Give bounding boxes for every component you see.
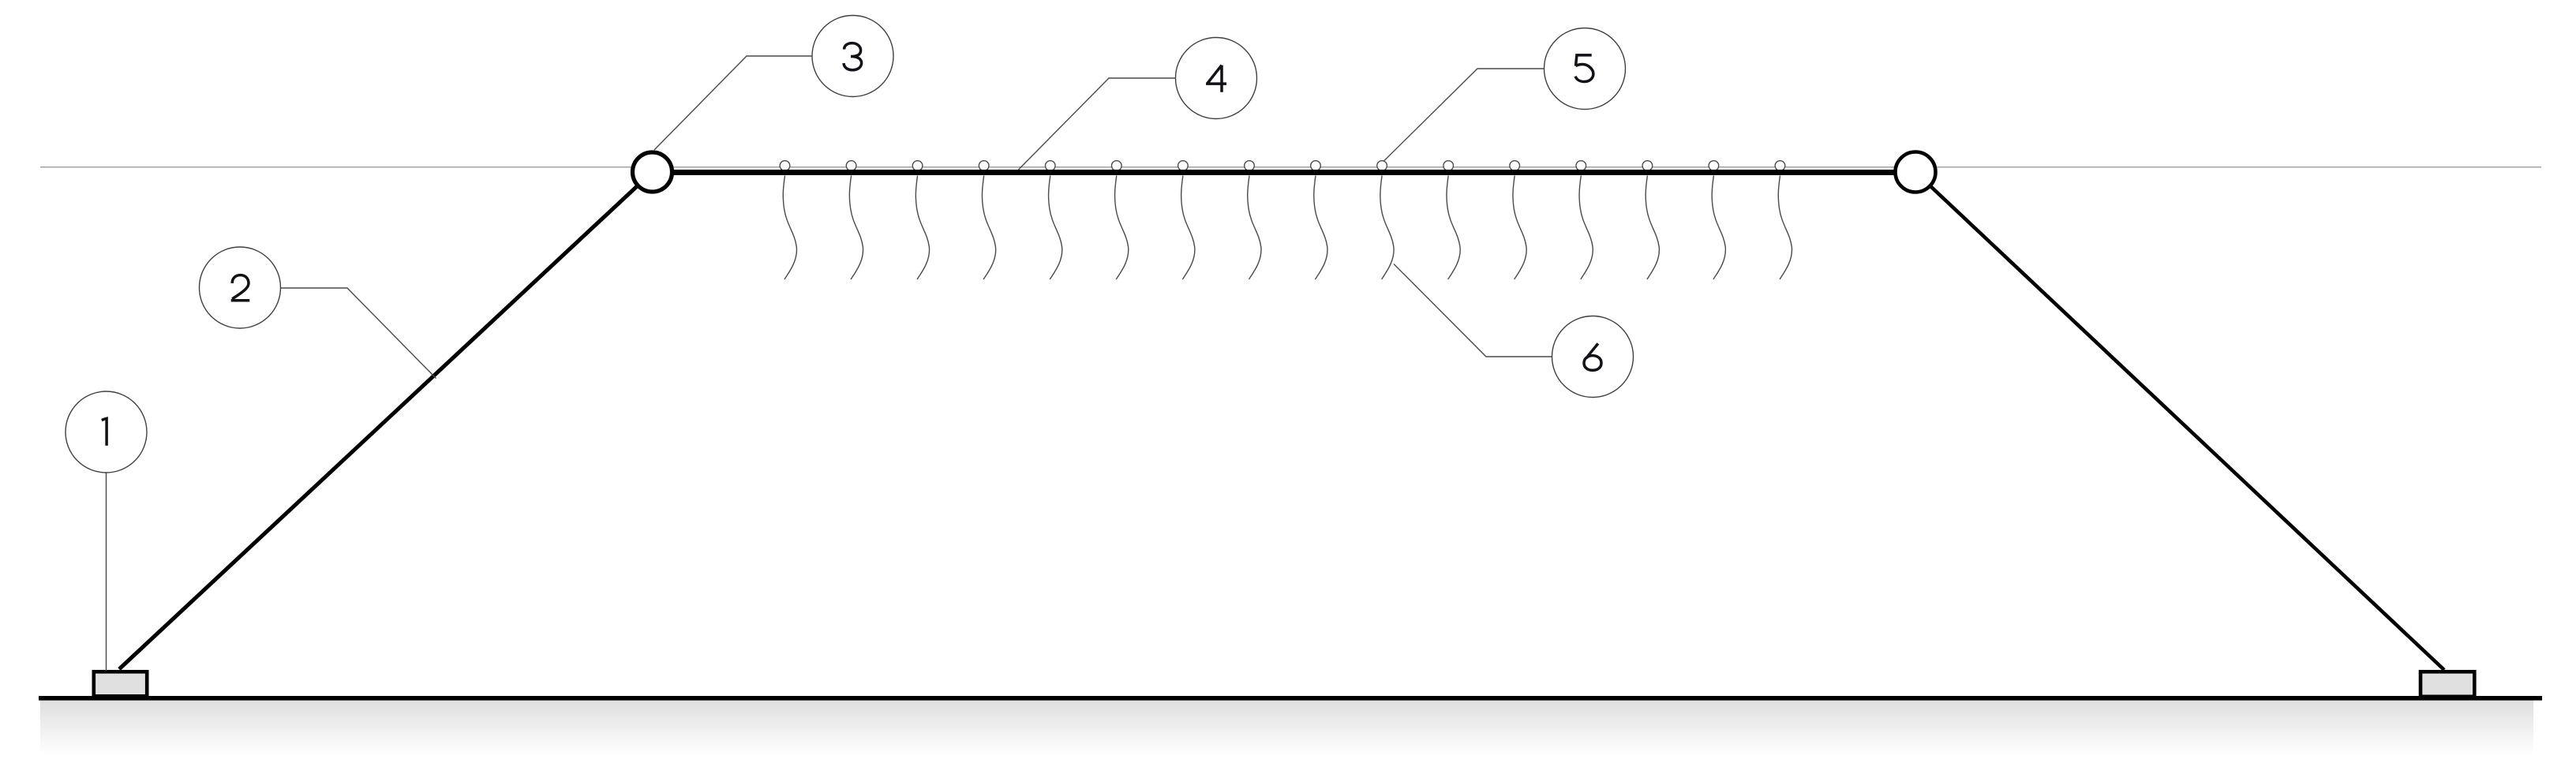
hanger ring H9 [1311, 161, 1321, 171]
boom cable [653, 170, 1916, 175]
hanger ring H7 [1178, 161, 1189, 171]
skirt strand S3 [915, 176, 929, 280]
callout balloon 3 [812, 16, 893, 97]
right end float [1896, 152, 1936, 193]
seabed line [39, 696, 2542, 701]
hanger ring H5 [1046, 161, 1056, 171]
skirt strand S9 [1314, 176, 1327, 280]
callout balloon 4 [1176, 38, 1257, 119]
skirt strand S12 [1513, 176, 1526, 280]
skirt strand S6 [1115, 176, 1129, 280]
skirt strand S14 [1646, 176, 1659, 280]
leader line 3 [654, 56, 813, 150]
hanger ring H11 [1443, 161, 1454, 171]
hanger ring H8 [1245, 161, 1255, 171]
callout balloon 6 [1552, 316, 1634, 398]
hanger ring H3 [912, 161, 923, 171]
skirt strand S8 [1248, 176, 1261, 280]
hanger ring H6 [1112, 161, 1122, 171]
hanger ring H4 [979, 161, 989, 171]
hanger ring H16 [1775, 161, 1785, 171]
right anchor block [2421, 671, 2474, 697]
skirt strand S7 [1181, 176, 1195, 280]
callout balloon 2 [200, 247, 281, 328]
digit 5 [1575, 55, 1593, 82]
skirt strand S2 [849, 176, 863, 280]
callout balloon 1 [66, 391, 147, 473]
left anchor block [94, 671, 147, 696]
hanger ring H2 [846, 161, 856, 171]
leader line 6 [1394, 264, 1552, 357]
skirt strand S1 [783, 176, 796, 280]
leader line 2 [281, 288, 436, 379]
hanger ring H12 [1510, 161, 1520, 171]
hanger ring H13 [1576, 161, 1586, 171]
skirt strand S15 [1712, 176, 1725, 280]
digit 1 [102, 418, 107, 445]
leader line 1 [106, 473, 107, 671]
hanger ring H15 [1709, 161, 1719, 171]
skirt strand S16 [1778, 176, 1792, 280]
skirt strand S4 [982, 176, 995, 280]
skirt strand S10 [1380, 176, 1394, 280]
right mooring line [1915, 172, 2444, 670]
waterline [40, 166, 2541, 168]
hanger ring H1 [780, 161, 790, 171]
left end float [633, 152, 672, 192]
leader line 4 [1019, 78, 1177, 170]
skirt strand S13 [1579, 176, 1593, 280]
digit 3 [844, 43, 862, 70]
digit 4 [1206, 65, 1226, 92]
skirt strand S11 [1447, 176, 1460, 280]
hanger ring H14 [1642, 161, 1653, 171]
left mooring line [119, 172, 653, 669]
digit 6 [1584, 343, 1601, 370]
seabed gradient [40, 700, 2533, 755]
hanger ring H10 [1377, 161, 1387, 171]
callout balloon 5 [1544, 28, 1626, 110]
digit 2 [231, 275, 250, 301]
skirt strand S5 [1049, 176, 1062, 280]
leader line 5 [1383, 69, 1544, 162]
